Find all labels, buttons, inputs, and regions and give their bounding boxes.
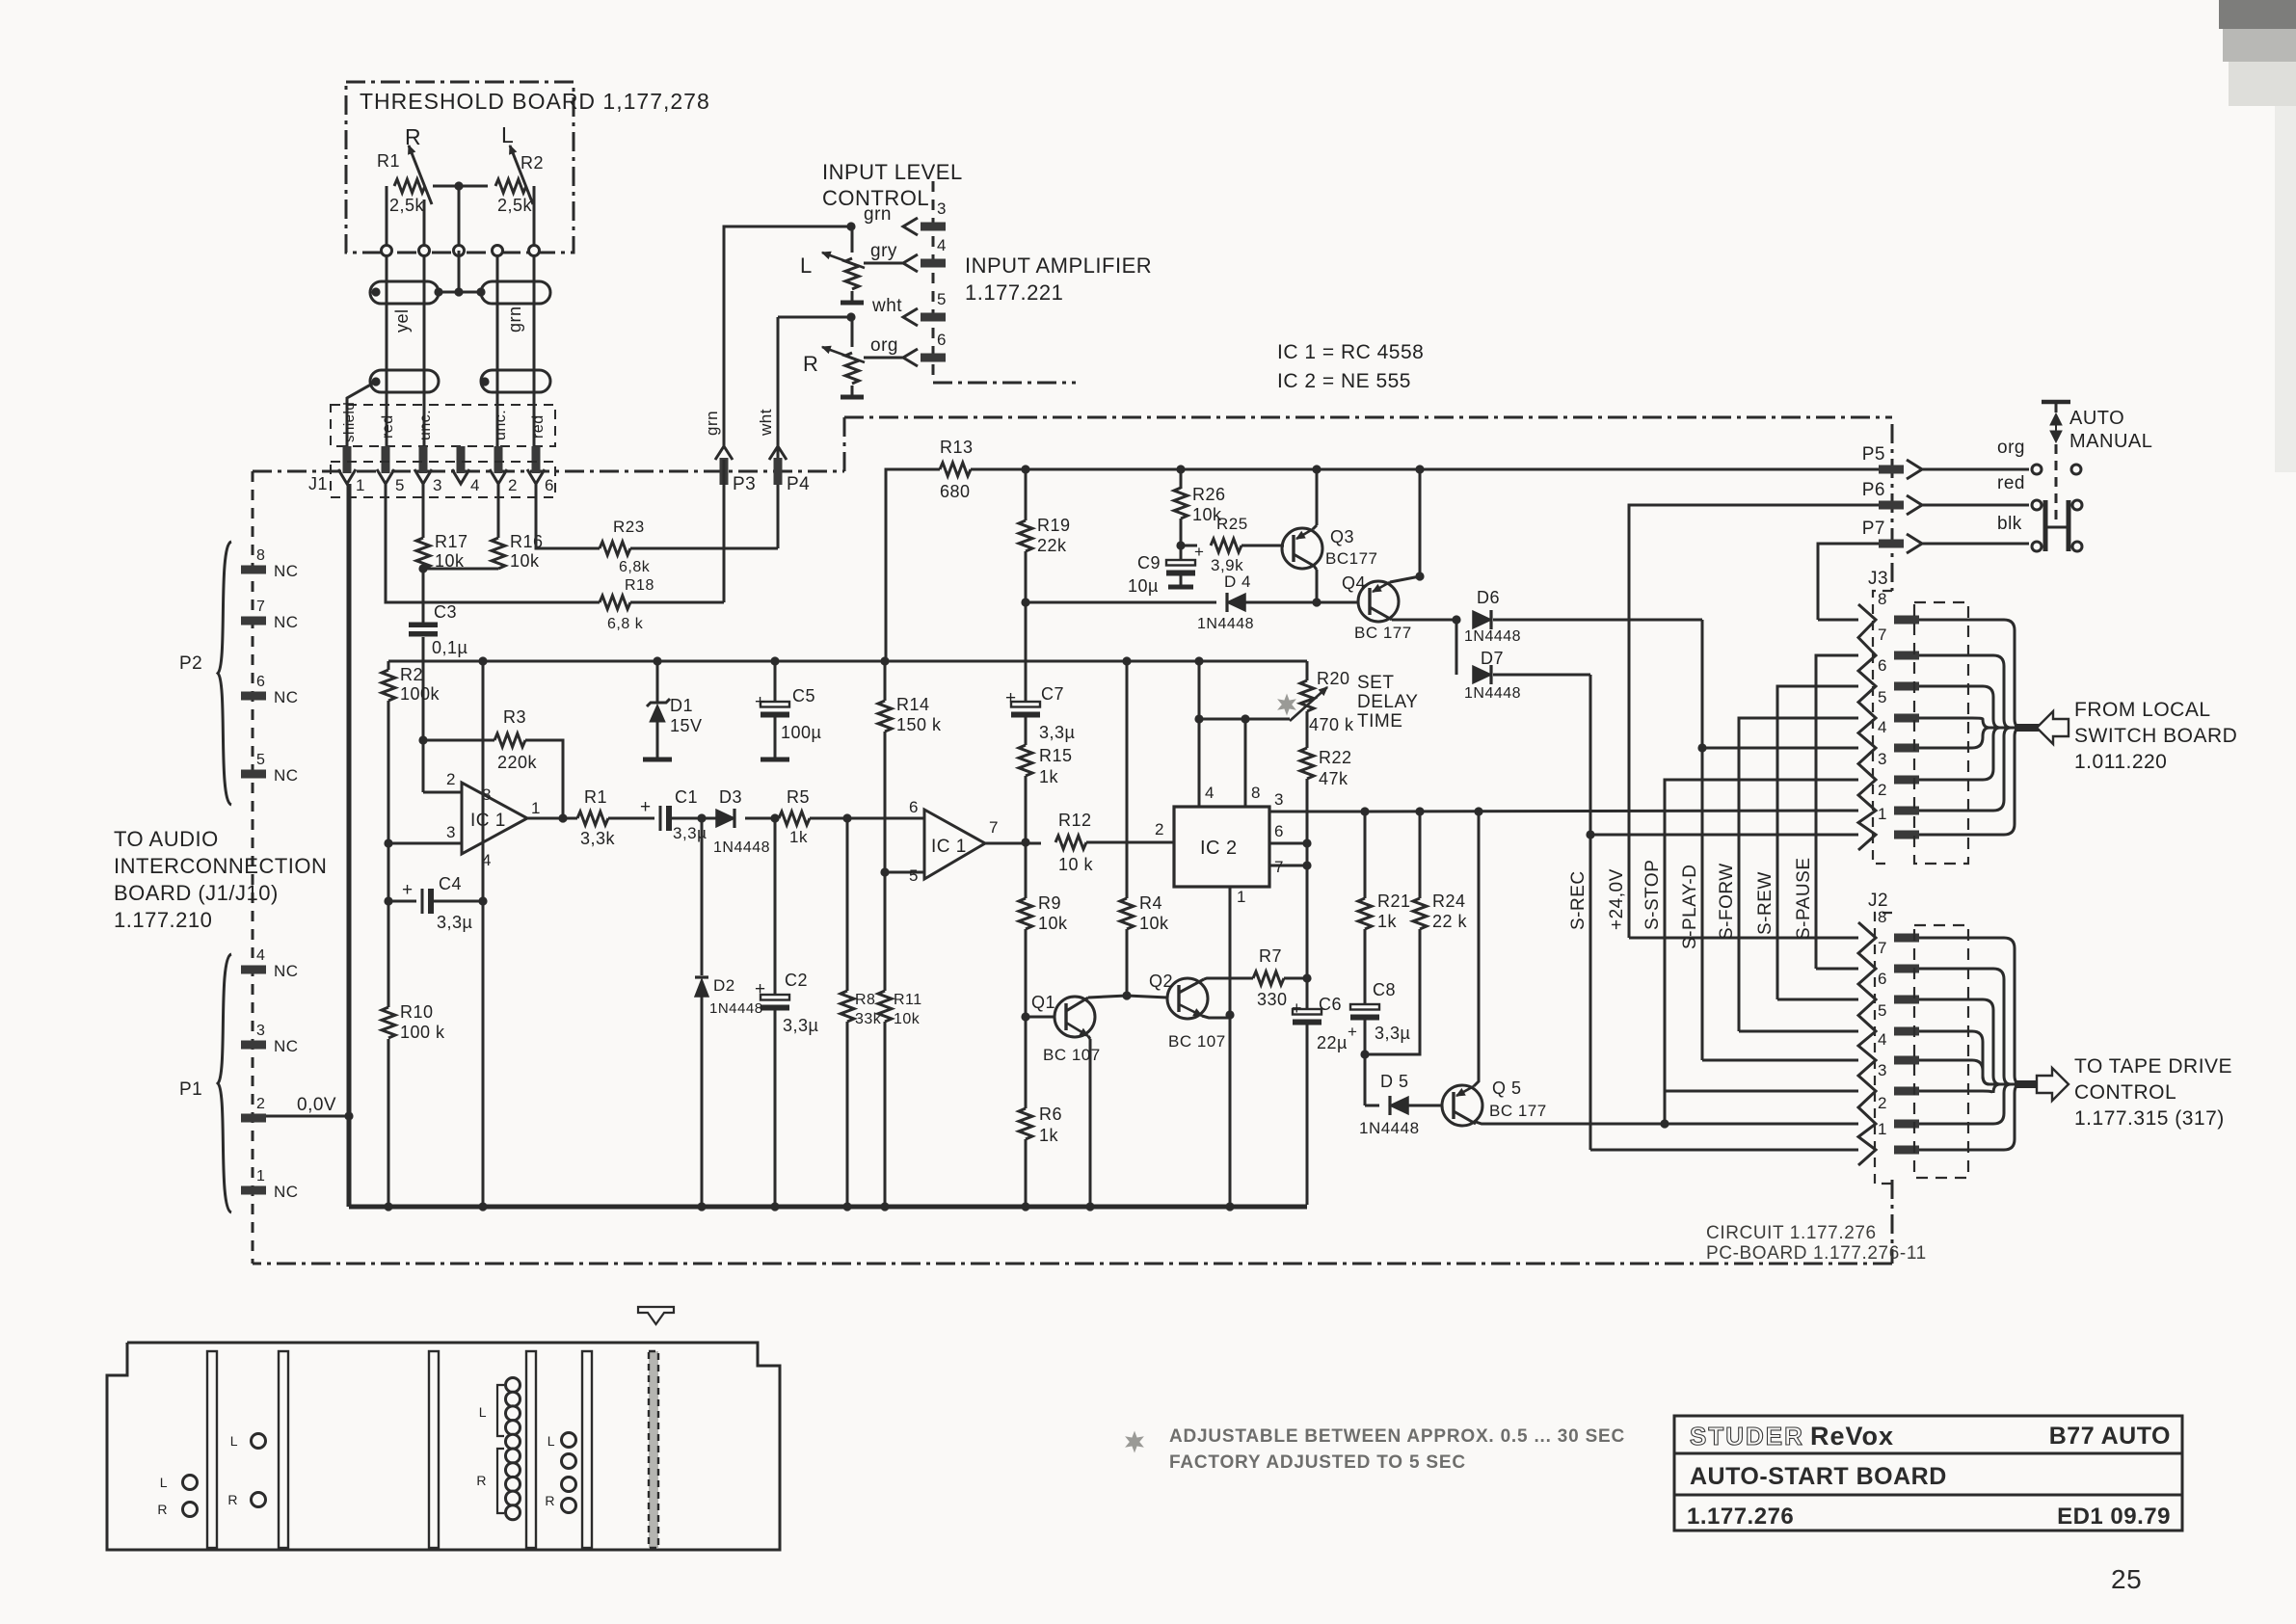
svg-text:6,8k: 6,8k: [619, 559, 651, 575]
J2 pin 7: [1878, 939, 1919, 973]
wire C4 left lead: [388, 900, 416, 903]
connector P7: [1862, 519, 1922, 553]
svg-text:+24,0V: +24,0V: [1607, 868, 1627, 930]
wire C8 node down to D5: [1364, 1054, 1367, 1105]
node pin5 tap: [880, 867, 889, 876]
star note marker: [1126, 1432, 1142, 1451]
pin 5 NC: [241, 752, 299, 785]
capacitor C2 3,3u: [755, 971, 818, 1035]
wire D2 to 0V bus: [701, 997, 704, 1205]
resistor R17 10k: [416, 532, 468, 571]
node C5 tap: [770, 656, 779, 665]
svg-text:INTERCONNECTION: INTERCONNECTION: [114, 854, 327, 878]
wire pin5 to IC1b: [885, 871, 924, 874]
label P2: [179, 653, 202, 674]
wire R10 to 0V bus: [387, 1039, 390, 1205]
svg-text:4: 4: [470, 476, 480, 494]
wire C6 to 0V bus corner: [1306, 1025, 1309, 1205]
resistor R4 10k: [1120, 893, 1169, 933]
svg-text:R24: R24: [1432, 892, 1466, 911]
wire Q1 collector to Q2 base: [1088, 996, 1127, 998]
svg-text:R: R: [227, 1492, 238, 1507]
svg-text:100 k: 100 k: [400, 1023, 445, 1042]
svg-text:1: 1: [1237, 888, 1246, 906]
svg-text:2: 2: [1878, 781, 1887, 799]
wire S-PAUSE to J2 pin7: [1816, 968, 1858, 971]
label unc left: [417, 410, 434, 440]
capacitor C8 3,3u: [1348, 980, 1410, 1043]
pot R upper half: [851, 317, 854, 347]
svg-text:150 k: 150 k: [896, 715, 942, 734]
pcb slot 6 shaded: [649, 1351, 658, 1548]
svg-text:D3: D3: [719, 787, 742, 807]
wire grn from P3 up and to pin3: [724, 226, 851, 446]
svg-text:1N4448: 1N4448: [1464, 628, 1521, 645]
node pin4 row: [1194, 714, 1203, 723]
wire J1 pin5 down to R18: [386, 484, 600, 602]
J2 pin 2: [1878, 1094, 1919, 1129]
wire D4 to Q4 base: [1317, 601, 1359, 604]
capacitor C4 3,3u: [402, 874, 472, 932]
svg-text:2: 2: [446, 770, 456, 788]
wire R3 left: [423, 739, 494, 742]
svg-text:Q3: Q3: [1330, 527, 1354, 546]
J2 wire pin 4 to bundle: [1919, 1060, 2020, 1084]
svg-text:NC: NC: [274, 962, 299, 980]
svg-text:FROM LOCAL: FROM LOCAL: [2074, 699, 2211, 721]
wire pin4 node down to 0V bus: [482, 901, 485, 1205]
label wht rotated: [757, 409, 775, 437]
svg-text:ADJUSTABLE BETWEEN APPROX. 0.5: ADJUSTABLE BETWEEN APPROX. 0.5 ... 30 SE…: [1169, 1426, 1625, 1447]
board outline dash-dot border: [253, 417, 1892, 1264]
J3 wire pin 5 to bundle: [1919, 718, 2020, 728]
svg-text:6: 6: [1878, 970, 1887, 988]
svg-text:7: 7: [989, 818, 999, 837]
svg-text:1N4448: 1N4448: [1359, 1119, 1420, 1137]
pot R lower half: [851, 386, 854, 395]
svg-text:P5: P5: [1862, 444, 1885, 465]
J3 pin 1: [1878, 805, 1919, 839]
svg-text:10 k: 10 k: [1058, 855, 1094, 874]
J2 pin 3: [1878, 1061, 1919, 1096]
wire gry wiper to pin4: [864, 262, 903, 265]
resistor R21 1k: [1358, 892, 1411, 931]
wire D3 to R5: [745, 817, 779, 820]
svg-text:7: 7: [1274, 858, 1284, 876]
svg-text:IC 1 = RC 4558: IC 1 = RC 4558: [1277, 341, 1424, 363]
node C2 tap: [770, 813, 779, 822]
svg-text:1N4448: 1N4448: [713, 839, 770, 856]
svg-text:ED1 09.79: ED1 09.79: [2057, 1504, 2171, 1530]
wire IC1a output: [527, 817, 577, 820]
label to tape drive control: [2074, 1055, 2232, 1130]
label pin2: [446, 770, 456, 788]
svg-text:220k: 220k: [497, 753, 538, 772]
svg-text:4: 4: [256, 947, 265, 964]
wire IC2 pin8: [1245, 719, 1261, 807]
wire pin3 node to J3 pin2: [1365, 811, 1858, 812]
bus S-REW: [1755, 686, 1858, 999]
capacitor C9 10u: [1128, 543, 1204, 596]
ground below D1: [643, 758, 672, 762]
wire S-STOP to J2 pin3: [1665, 1090, 1858, 1093]
svg-text:4: 4: [1205, 784, 1215, 802]
pcb hole group2: [227, 1433, 265, 1507]
pin 1 NC: [241, 1168, 299, 1201]
svg-text:C4: C4: [439, 874, 462, 893]
wire R2 node down to R10: [387, 886, 390, 1007]
svg-text:5: 5: [937, 290, 947, 308]
svg-text:R17: R17: [435, 532, 468, 551]
wire C3 to IC1 input: [422, 637, 425, 792]
wire C5 bottom lead: [774, 717, 777, 758]
wire filtered rail y686: [388, 660, 1307, 663]
svg-text:BC177: BC177: [1325, 549, 1377, 568]
svg-text:3: 3: [256, 1023, 265, 1039]
node C4 right: [478, 896, 487, 905]
svg-text:INPUT LEVEL: INPUT LEVEL: [822, 160, 963, 184]
svg-text:470 k: 470 k: [1309, 715, 1354, 734]
wire C2 node vertical: [774, 818, 777, 994]
node D2 tap: [697, 813, 706, 822]
label pin7: [989, 818, 999, 837]
J2 wire pin 7 to bundle: [1919, 969, 2020, 1084]
wire IC2 pin6: [1269, 822, 1307, 843]
pin 4 input amp: [903, 236, 947, 272]
J2 pin 5: [1878, 1001, 1919, 1036]
node pin4 on wire686: [1194, 656, 1203, 665]
node Q3 collector D4 wire: [1312, 598, 1321, 606]
wire C2 to 0V bus: [774, 1010, 777, 1205]
svg-text:1.177.210: 1.177.210: [114, 908, 212, 932]
svg-text:0,1µ: 0,1µ: [432, 638, 467, 657]
svg-text:1.177.221: 1.177.221: [965, 280, 1063, 305]
svg-text:L: L: [479, 1404, 487, 1420]
svg-text:ReVox: ReVox: [1810, 1422, 1894, 1451]
transistor Q3 BC177: [1282, 527, 1377, 569]
svg-text:330: 330: [1257, 990, 1288, 1009]
svg-text:R: R: [405, 124, 421, 149]
node grn: [846, 222, 855, 230]
label from local switch board: [2074, 699, 2237, 773]
svg-text:J1: J1: [308, 474, 328, 493]
wire IC1b output: [985, 842, 1041, 845]
svg-text:R: R: [157, 1502, 168, 1517]
J3 wire pin 8 to bundle: [1919, 620, 2021, 728]
bus S-FORW: [1717, 718, 1858, 1031]
svg-text:5: 5: [256, 752, 265, 768]
resistor R13 680: [940, 438, 974, 501]
connector J2 dashed outline: [1875, 913, 1892, 1184]
switch contact org right: [2071, 465, 2081, 474]
pin 2 0V: [241, 1095, 336, 1123]
label pin6: [909, 798, 919, 816]
node D6-D7 branch: [1452, 615, 1460, 624]
wire P6 to switch: [1922, 504, 2029, 507]
J2 wire pin 6 to bundle: [1919, 999, 2020, 1084]
pot L body: [822, 252, 865, 289]
svg-text:NC: NC: [274, 1037, 299, 1055]
svg-text:C3: C3: [434, 602, 457, 622]
J2 wire pin 8 to bundle: [1919, 938, 2021, 1084]
cable label grn: [505, 306, 524, 333]
svg-text:R10: R10: [400, 1002, 434, 1022]
svg-text:1N4448: 1N4448: [709, 1000, 763, 1017]
resistor R5 1k: [779, 787, 810, 846]
J2 pin 1: [1878, 1120, 1919, 1155]
svg-text:8: 8: [1878, 908, 1887, 926]
J3 wire pin 3 to bundle: [1919, 728, 2020, 780]
svg-text:+: +: [1348, 1023, 1357, 1041]
transistor Q5 BC177: [1442, 1078, 1547, 1126]
wire S-FORW to J2 pin5: [1739, 1030, 1858, 1033]
J3 pin 7: [1878, 626, 1919, 660]
svg-text:R25: R25: [1216, 515, 1248, 533]
pcb bracket R: [476, 1449, 504, 1513]
threshold board dashed box: [346, 82, 574, 253]
resistor R3 220k: [494, 707, 538, 772]
resistor R6 1k: [1019, 1105, 1062, 1145]
svg-text:2,5k: 2,5k: [389, 196, 425, 215]
switch contact blk right: [2072, 542, 2082, 551]
node R26 top: [1176, 465, 1185, 473]
wire R8 top: [846, 818, 849, 991]
svg-text:R23: R23: [613, 518, 645, 536]
wire chain to C7: [1025, 602, 1028, 701]
note set delay time: [1357, 673, 1418, 732]
wire IC2 pin3 output: [1269, 790, 1365, 812]
cable shield oval upper left: [370, 281, 439, 304]
wire R2 right lead: [533, 186, 536, 246]
switch actuator dashed: [2055, 444, 2058, 520]
pcb hole group1: [157, 1475, 197, 1517]
diode D3 1N4448: [713, 787, 770, 856]
label wht: [871, 296, 902, 316]
svg-text:3: 3: [1878, 1061, 1887, 1079]
bus S-STOP: [1642, 780, 1858, 1124]
node Q5 emitter top: [1474, 807, 1482, 815]
star adjustable marker: [1278, 695, 1295, 714]
svg-text:Q4: Q4: [1342, 573, 1366, 593]
wire R17-R16 bottoms join: [418, 564, 498, 572]
svg-text:BC 107: BC 107: [1168, 1032, 1226, 1051]
svg-text:L: L: [160, 1475, 168, 1490]
label red left: [380, 414, 396, 439]
J1 pin numbers: [356, 476, 554, 494]
svg-text:S-PLAY-D: S-PLAY-D: [1680, 865, 1700, 949]
label org: [870, 335, 898, 356]
svg-text:BOARD (J1/J10): BOARD (J1/J10): [114, 881, 279, 905]
svg-text:1k: 1k: [1039, 767, 1059, 786]
note adjustable: [1169, 1426, 1625, 1473]
svg-text:TO TAPE DRIVE: TO TAPE DRIVE: [2074, 1055, 2232, 1078]
svg-text:6: 6: [1878, 656, 1887, 675]
title part number: [1687, 1504, 1794, 1530]
J3 pin 4: [1878, 718, 1919, 753]
svg-text:shield: shield: [341, 402, 358, 442]
0V bus vertical: [347, 484, 352, 1207]
svg-text:3,3k: 3,3k: [580, 829, 616, 848]
svg-text:IC 1: IC 1: [931, 837, 967, 857]
node 0V bus x501: [478, 1202, 487, 1211]
node 0V bus x403: [384, 1202, 392, 1211]
svg-text:3: 3: [1274, 790, 1284, 809]
wire D4 line: [1026, 601, 1317, 604]
diode D2 1N4448: [695, 976, 763, 1017]
pin 4 NC: [241, 947, 299, 980]
wire R15 to output node: [1025, 776, 1028, 842]
svg-text:L: L: [800, 253, 813, 278]
label unc right: [493, 410, 509, 440]
svg-text:NC: NC: [274, 613, 299, 631]
wire R9 to Q1 base node: [1025, 929, 1028, 1017]
pcb bracket L: [479, 1385, 504, 1436]
svg-text:C7: C7: [1041, 684, 1064, 704]
resistor R22 47k: [1300, 748, 1352, 788]
svg-text:2: 2: [256, 1096, 265, 1112]
node pin3 tap: [384, 839, 392, 847]
wire center tap to shields: [434, 251, 485, 297]
svg-text:MANUAL: MANUAL: [2069, 431, 2152, 452]
wire P6 from +24V corner: [1629, 504, 1880, 507]
wire R22 down across pin3 wire: [1306, 779, 1309, 843]
node 0V bus x1064: [1021, 1202, 1029, 1211]
svg-text:CIRCUIT 1.177.276: CIRCUIT 1.177.276: [1706, 1223, 1877, 1243]
svg-text:R9: R9: [1038, 893, 1061, 913]
capacitor C1 3,3u: [640, 787, 707, 842]
node S-STOP collector join: [1660, 1119, 1669, 1128]
wire Q1 base lead: [1026, 1016, 1055, 1019]
svg-text:S-STOP: S-STOP: [1642, 860, 1663, 930]
wire C7 to R15: [1025, 717, 1028, 745]
svg-text:org: org: [870, 335, 898, 356]
wire R2 down: [387, 701, 390, 886]
J2 pin 6: [1878, 970, 1919, 1004]
svg-text:6: 6: [256, 674, 265, 690]
node R8 tap: [842, 813, 851, 822]
node Q3 emitter rail: [1312, 465, 1321, 473]
potentiometer R2 2,5k: [495, 146, 544, 215]
svg-text:L: L: [547, 1433, 555, 1449]
wire IC2 pin1: [1230, 887, 1246, 1205]
wire R19 top lead: [1025, 469, 1028, 520]
wire R1 to C1: [608, 817, 654, 820]
label gry: [870, 241, 897, 261]
svg-text:R14: R14: [896, 695, 930, 714]
svg-text:+: +: [1005, 688, 1017, 708]
svg-text:R22: R22: [1319, 748, 1352, 767]
svg-text:S-REC: S-REC: [1568, 870, 1589, 930]
wire R6 to 0V bus: [1025, 1139, 1028, 1205]
node pin8 row: [1241, 714, 1249, 723]
title AUTO-START BOARD: [1690, 1463, 1947, 1490]
svg-text:10k: 10k: [894, 1011, 921, 1027]
wire R19 to D4 node: [1025, 551, 1028, 602]
resistor R15 1k: [1019, 745, 1073, 786]
input amplifier dash-dot stub: [933, 181, 1076, 383]
bus +24V: [1607, 505, 1880, 938]
svg-text:1: 1: [1878, 1120, 1887, 1138]
wire pin3 to IC1a: [388, 842, 462, 845]
node pin6: [1302, 839, 1311, 847]
svg-text:L: L: [230, 1433, 238, 1449]
svg-text:D7: D7: [1481, 649, 1504, 668]
node R14 tap: [880, 656, 889, 665]
diode D5 1N4448: [1359, 1072, 1420, 1137]
svg-text:gry: gry: [870, 241, 897, 261]
svg-text:L: L: [501, 122, 514, 147]
wire Q4 collector to D6: [1392, 619, 1456, 622]
wire J1 pin6 down to R23: [536, 484, 600, 548]
wire C8 bottom to node: [1364, 1020, 1367, 1054]
svg-text:P3: P3: [733, 474, 756, 494]
wire R20 wiper row: [1199, 718, 1290, 721]
svg-text:10k: 10k: [1038, 914, 1068, 933]
wire D2 vertical top: [701, 818, 704, 975]
svg-text:+: +: [640, 797, 652, 817]
J3 pin 5: [1878, 688, 1919, 723]
label L channel: [501, 122, 514, 147]
resistor R14 150k: [878, 695, 942, 734]
wire R8 to 0V bus: [846, 1022, 849, 1205]
svg-text:0,0V: 0,0V: [297, 1095, 336, 1115]
svg-text:blk: blk: [1997, 514, 2022, 534]
J3 wire pin 2 to bundle: [1919, 728, 2020, 811]
svg-text:unc.: unc.: [493, 410, 509, 440]
svg-text:S-PAUSE: S-PAUSE: [1794, 857, 1814, 940]
wire shield to J1 pin1: [347, 377, 381, 447]
svg-text:J3: J3: [1868, 569, 1888, 589]
connector P6: [1862, 480, 1922, 515]
svg-text:S-FORW: S-FORW: [1717, 863, 1737, 940]
J3 bundle stub: [2015, 724, 2039, 732]
connector P3: [715, 446, 756, 494]
pcb orientation arrow: [638, 1307, 674, 1324]
svg-text:5: 5: [1878, 1001, 1887, 1020]
svg-text:P1: P1: [179, 1079, 202, 1100]
svg-text:+: +: [755, 979, 766, 999]
svg-text:1: 1: [1878, 805, 1887, 823]
svg-text:6,8 k: 6,8 k: [607, 616, 644, 632]
svg-text:R8: R8: [855, 992, 875, 1008]
svg-text:1: 1: [256, 1168, 265, 1185]
svg-text:grn: grn: [703, 411, 721, 436]
capacitor C3 0,1u: [409, 602, 467, 657]
svg-text:5: 5: [395, 476, 405, 494]
svg-text:+: +: [755, 692, 766, 712]
resistor R25 3,9k: [1211, 515, 1248, 574]
node Q2 emitter join: [1225, 1010, 1234, 1019]
wire R24 hang: [1419, 812, 1422, 898]
cable shield oval lower left: [370, 370, 439, 392]
svg-text:C2: C2: [785, 971, 808, 990]
brace P1: [218, 954, 231, 1212]
wire IC2 pin7: [1269, 858, 1307, 876]
node 0V bus x1276: [1225, 1202, 1234, 1211]
svg-text:22 k: 22 k: [1432, 912, 1468, 931]
svg-text:STUDER: STUDER: [1690, 1422, 1804, 1451]
svg-text:100k: 100k: [400, 684, 441, 704]
ground below pot L: [841, 301, 864, 306]
svg-text:1: 1: [356, 476, 365, 494]
wire D6 branch down to D7: [1455, 620, 1458, 675]
node center tap: [454, 181, 463, 246]
scanner smudge top-right corner: [2219, 0, 2296, 472]
svg-text:FACTORY ADJUSTED TO 5 SEC: FACTORY ADJUSTED TO 5 SEC: [1169, 1452, 1466, 1473]
connector P5: [1862, 444, 1922, 479]
node 0V bus x918: [880, 1202, 889, 1211]
pin 7 NC: [241, 599, 299, 631]
